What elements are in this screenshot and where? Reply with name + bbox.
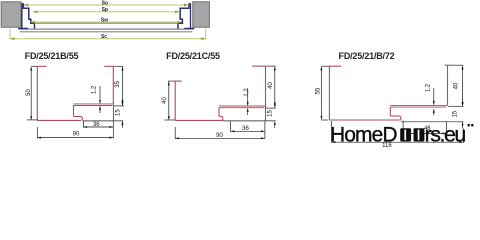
profile 1 dim labels bbox=[26, 80, 122, 137]
svg-text:Sw: Sw bbox=[101, 17, 108, 23]
title FD/25/21C/55 bbox=[166, 51, 220, 61]
svg-text:50: 50 bbox=[26, 89, 32, 96]
svg-text:HomeD: HomeD bbox=[330, 124, 397, 147]
svg-text:36: 36 bbox=[93, 122, 100, 128]
profile 3 dim labels bbox=[316, 82, 460, 149]
frame profile right bbox=[178, 4, 194, 30]
lower band (frame bottom flanges) bbox=[20, 31, 192, 33]
svg-text:40: 40 bbox=[268, 82, 274, 89]
svg-text:So: So bbox=[102, 0, 108, 6]
profile 3 dims (black) bbox=[321, 65, 463, 143]
profile 2 dim labels bbox=[162, 82, 274, 139]
svg-text:FD/25/21/B/72: FD/25/21/B/72 bbox=[339, 51, 395, 61]
svg-text:40: 40 bbox=[162, 97, 168, 104]
door leaf band bbox=[28, 23, 184, 29]
svg-text:15: 15 bbox=[268, 110, 274, 117]
svg-text:35: 35 bbox=[115, 80, 121, 87]
svg-text:rs.eu: rs.eu bbox=[425, 123, 466, 147]
svg-text:FD/25/21B/55: FD/25/21B/55 bbox=[25, 51, 79, 61]
svg-text:Sc: Sc bbox=[101, 34, 107, 40]
dimension Sp bbox=[33, 7, 179, 13]
profile 2 dims (black) bbox=[165, 66, 276, 139]
dimension Sc with extension lines bbox=[10, 28, 206, 40]
dimension So bbox=[24, 0, 188, 6]
wall right bbox=[193, 2, 210, 27]
svg-text:90: 90 bbox=[216, 133, 223, 139]
title FD/25/21B/55 bbox=[25, 51, 79, 61]
svg-text:1,2: 1,2 bbox=[244, 88, 250, 97]
dimension Sw bbox=[31, 17, 182, 23]
svg-text:FD/25/21C/55: FD/25/21C/55 bbox=[166, 51, 220, 61]
svg-text:55: 55 bbox=[316, 87, 322, 94]
svg-text:1,2: 1,2 bbox=[426, 83, 432, 92]
wall left bbox=[1, 2, 21, 27]
profile 1 outline (red) bbox=[37, 66, 115, 120]
title FD/25/21/B/72 bbox=[339, 51, 395, 61]
svg-text:15: 15 bbox=[116, 109, 122, 116]
svg-text:90: 90 bbox=[73, 131, 80, 137]
svg-text:36: 36 bbox=[242, 126, 249, 132]
svg-text:1,2: 1,2 bbox=[91, 85, 97, 94]
svg-text:Sp: Sp bbox=[102, 7, 108, 13]
frame profile left bbox=[18, 4, 34, 30]
svg-text:40: 40 bbox=[454, 82, 460, 89]
profile 1 dims (black) bbox=[27, 66, 124, 138]
svg-text:15: 15 bbox=[453, 110, 459, 117]
profile 2 outline (red) bbox=[172, 66, 267, 120]
profile 3 outline (red) bbox=[328, 65, 453, 120]
